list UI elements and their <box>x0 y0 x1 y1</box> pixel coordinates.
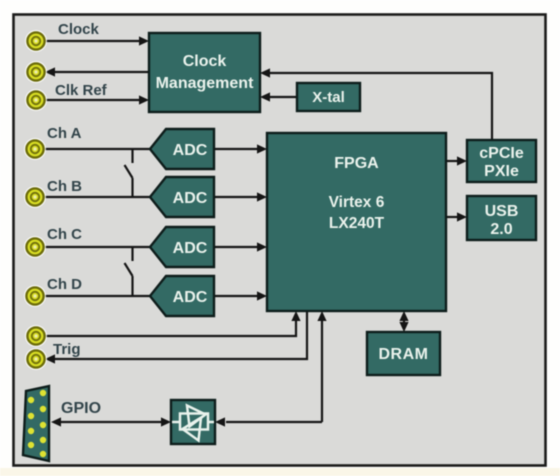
svg-text:Trig: Trig <box>53 341 81 358</box>
svg-text:USB: USB <box>485 203 519 220</box>
svg-text:FPGA: FPGA <box>334 155 379 172</box>
svg-text:ADC: ADC <box>173 142 208 159</box>
svg-text:ADC: ADC <box>173 190 208 207</box>
svg-text:DRAM: DRAM <box>379 346 429 363</box>
svg-text:Virtex 6: Virtex 6 <box>329 194 385 211</box>
svg-text:Ch B: Ch B <box>47 178 82 195</box>
svg-text:GPIO: GPIO <box>61 400 101 417</box>
svg-text:Ch A: Ch A <box>47 125 82 142</box>
svg-text:ADC: ADC <box>173 240 208 257</box>
svg-text:X-tal: X-tal <box>312 89 345 106</box>
svg-text:Clk Ref: Clk Ref <box>55 82 108 99</box>
svg-text:LX240T: LX240T <box>329 215 385 232</box>
svg-text:Ch D: Ch D <box>47 276 82 293</box>
svg-text:ADC: ADC <box>173 289 208 306</box>
svg-text:cPCIe: cPCIe <box>479 145 524 162</box>
svg-text:Ch C: Ch C <box>47 226 82 243</box>
svg-text:Clock: Clock <box>183 53 227 70</box>
svg-text:Management: Management <box>156 75 254 92</box>
svg-text:PXIe: PXIe <box>484 163 519 180</box>
svg-text:2.0: 2.0 <box>490 221 512 238</box>
svg-text:Clock: Clock <box>58 21 100 38</box>
